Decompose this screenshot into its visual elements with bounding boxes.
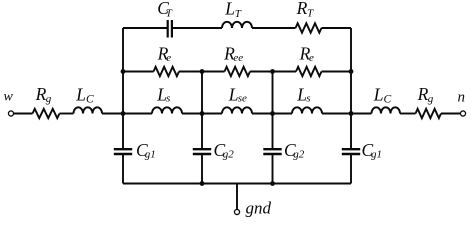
svg-text:s: s — [306, 92, 310, 104]
svg-text:g: g — [428, 93, 434, 105]
svg-text:L: L — [75, 85, 86, 105]
svg-text:C: C — [384, 93, 392, 105]
svg-text:se: se — [238, 93, 247, 105]
svg-text:ee: ee — [233, 52, 243, 64]
svg-text:R: R — [35, 84, 47, 104]
svg-text:g1: g1 — [145, 149, 156, 161]
svg-text:R: R — [417, 84, 429, 104]
svg-text:e: e — [309, 52, 314, 64]
svg-text:g: g — [46, 93, 52, 105]
svg-text:g2: g2 — [293, 149, 305, 161]
svg-text:n: n — [458, 89, 466, 105]
svg-text:w: w — [4, 90, 14, 105]
svg-text:T: T — [307, 7, 314, 19]
svg-text:gnd: gnd — [246, 199, 272, 218]
svg-text:L: L — [373, 85, 384, 105]
svg-text:e: e — [166, 52, 171, 64]
svg-text:s: s — [166, 92, 170, 104]
svg-text:R: R — [296, 0, 308, 18]
svg-text:g2: g2 — [223, 149, 235, 161]
svg-text:T: T — [235, 8, 242, 20]
svg-text:g1: g1 — [371, 149, 382, 161]
svg-text:T: T — [166, 7, 173, 19]
svg-text:C: C — [86, 93, 94, 105]
svg-text:L: L — [224, 0, 235, 19]
